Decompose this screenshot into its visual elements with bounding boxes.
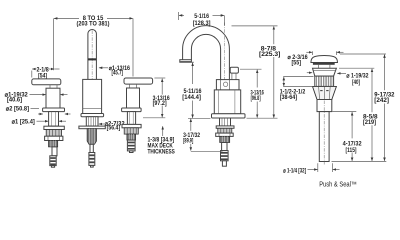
side view column lines into body xyxy=(221,80,230,90)
label 1-3/8 [34.9] MAX DECK THICKNESS xyxy=(148,138,175,156)
svg-text:2-1/8: 2-1/8 xyxy=(37,67,50,73)
svg-text:[128.3]: [128.3] xyxy=(193,21,211,27)
side view handle lever xyxy=(230,67,238,79)
center spout centerline xyxy=(91,31,93,119)
svg-text:THICKNESS: THICKNESS xyxy=(148,149,175,155)
dimension 8-5/8 [219] xyxy=(339,68,378,161)
side view centerline xyxy=(224,23,226,120)
bottom extension line xyxy=(332,160,387,162)
svg-text:5-1/16: 5-1/16 xyxy=(194,14,209,20)
svg-text:⌀1 [25.4]: ⌀1 [25.4] xyxy=(12,119,35,125)
right handle lever bar xyxy=(124,78,153,84)
side view body lower xyxy=(214,90,240,114)
svg-text:4-17/32: 4-17/32 xyxy=(343,141,363,147)
center spout dome top xyxy=(88,29,97,79)
center spout hose connector xyxy=(89,153,95,168)
leader max deck xyxy=(162,126,164,136)
svg-text:[96.8]: [96.8] xyxy=(251,96,261,102)
side view aerator tip xyxy=(180,60,192,63)
right handle mounting nut xyxy=(124,128,138,134)
label dia 2 [50.8] xyxy=(6,107,71,114)
center spout body xyxy=(83,79,102,114)
center spout flange xyxy=(81,114,104,117)
dimension 3-17/32 [89.9] below deck xyxy=(183,119,222,152)
deck extension left xyxy=(188,117,211,119)
svg-text:Push & Seal™: Push & Seal™ xyxy=(319,182,357,189)
left handle body xyxy=(46,88,60,108)
left handle valve body xyxy=(49,141,58,147)
svg-text:[115]: [115] xyxy=(346,148,357,154)
svg-text:[38-64]: [38-64] xyxy=(280,95,297,101)
side view valve body xyxy=(220,136,230,142)
dimension 8-7/8 [225.3] overall height xyxy=(232,26,281,118)
right handle body xyxy=(127,88,140,108)
left handle mounting nut xyxy=(46,130,61,137)
svg-text:[45.7]: [45.7] xyxy=(112,71,124,77)
svg-text:⌀ 1-19/32: ⌀ 1-19/32 xyxy=(346,74,369,80)
right handle connector xyxy=(127,140,135,152)
svg-text:⌀ 1-1/4 [32]: ⌀ 1-1/4 [32] xyxy=(283,169,306,175)
dimension 4-17/32 [115] xyxy=(332,112,362,161)
side view flange xyxy=(212,114,246,118)
left handle connector xyxy=(50,156,56,167)
dimension 5-1/16 [128.3] spout reach xyxy=(179,12,225,27)
svg-text:[242]: [242] xyxy=(374,98,389,104)
svg-text:[225.3]: [225.3] xyxy=(259,52,280,58)
svg-text:[219]: [219] xyxy=(363,120,376,126)
left handle post xyxy=(50,85,57,88)
dimension 3-13/16 [96.8] side handle height xyxy=(240,69,278,118)
side view spout outer arc xyxy=(183,26,230,80)
dimension dia 1-19/32 [40] xyxy=(307,73,369,86)
side view bracket xyxy=(216,133,234,136)
side view mounting nut xyxy=(218,128,232,133)
svg-text:(203 TO 381): (203 TO 381) xyxy=(77,22,110,28)
svg-text:[56.4]: [56.4] xyxy=(107,126,121,132)
center spout supply tube xyxy=(90,144,93,152)
left handle lever bar xyxy=(32,79,61,85)
right handle washer xyxy=(122,124,141,127)
dimension 3-13/16 [97.2] right handle height xyxy=(143,78,170,118)
dimension 9-17/32 [242] xyxy=(340,54,395,161)
svg-text:[89.9]: [89.9] xyxy=(183,139,193,145)
dimension 2-1/8 [54] lever length xyxy=(32,67,60,79)
right handle post xyxy=(130,84,137,88)
label dia 2-7/32 [56.4] xyxy=(99,122,126,132)
right handle shank xyxy=(127,112,135,125)
svg-text:[40]: [40] xyxy=(352,80,360,86)
center spout washer xyxy=(79,126,105,129)
dimension 8 TO 15 spread line xyxy=(53,16,133,77)
drain flange xyxy=(313,68,337,76)
dimension dia 2-3/16 [55] xyxy=(288,51,344,66)
side view shank xyxy=(220,118,231,126)
drain tailpipe xyxy=(319,101,329,165)
side view body upper xyxy=(216,80,239,90)
label dia 1 [25.4] xyxy=(12,119,66,125)
label dia 1-13/16 [45.7] xyxy=(99,66,131,77)
left handle supply tube xyxy=(52,147,57,156)
drain nut xyxy=(313,86,337,99)
center spout valve body xyxy=(87,129,96,145)
drain coupling xyxy=(317,100,332,112)
svg-text:[40.6]: [40.6] xyxy=(7,97,22,103)
drain cap xyxy=(311,56,338,69)
left handle washer xyxy=(44,126,64,129)
svg-text:[144.4]: [144.4] xyxy=(182,95,201,101)
center spout threaded shank xyxy=(86,117,98,126)
svg-text:[55]: [55] xyxy=(292,60,302,66)
side view supply tube xyxy=(222,143,227,151)
center spout aerator band xyxy=(88,58,97,60)
right handle flange xyxy=(122,108,142,112)
dimension dia 1-1/4 [32] tailpipe xyxy=(283,163,339,174)
label dia 1-19/32 [40.6] xyxy=(5,93,68,104)
side view spout inner arc xyxy=(191,34,220,79)
drain threaded body xyxy=(315,76,334,86)
left handle shank xyxy=(49,112,59,127)
left handle bracket xyxy=(45,136,63,140)
side view washer xyxy=(216,126,234,128)
left handle flange xyxy=(43,108,65,112)
right handle valve body xyxy=(127,134,136,140)
svg-text:⌀2 [50.8]: ⌀2 [50.8] xyxy=(6,107,29,113)
svg-text:[97.2]: [97.2] xyxy=(153,101,167,107)
side view handle hub circle xyxy=(223,82,227,86)
dimension 1-1/2-2-1/2 [38-64] xyxy=(280,77,314,101)
side view hose connector xyxy=(221,151,229,167)
dimension 5-11/16 [144.4] spout outlet height xyxy=(182,62,202,118)
